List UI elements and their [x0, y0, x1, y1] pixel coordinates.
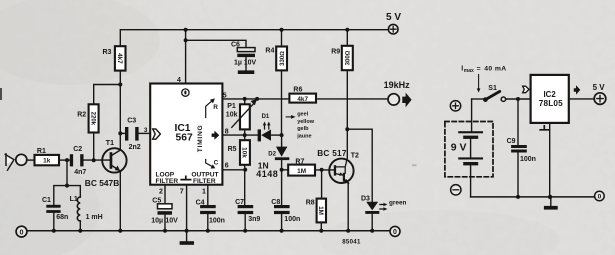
- svg-text:TIMING: TIMING: [197, 125, 204, 153]
- svg-text:C2: C2: [73, 146, 82, 153]
- pin 8 output arrow: [212, 131, 220, 140]
- capacitor C5: [151, 197, 178, 230]
- svg-text:=: =: [477, 66, 481, 73]
- svg-text:jaune: jaune: [296, 134, 311, 140]
- svg-text:4k7: 4k7: [297, 96, 308, 103]
- svg-text:R4: R4: [265, 47, 274, 54]
- wire R5 to C7: [244, 165, 246, 205]
- svg-text:R6: R6: [293, 86, 302, 93]
- node D1 / R4 / D2: [280, 133, 284, 137]
- node tank branch: [65, 158, 69, 162]
- svg-text:R9: R9: [331, 48, 340, 55]
- svg-text:R2: R2: [77, 111, 86, 118]
- op-amp U1 IC1 567 box: [150, 84, 222, 185]
- node rail C8: [280, 229, 284, 233]
- svg-text:68n: 68n: [56, 214, 68, 221]
- svg-text:D3: D3: [361, 195, 370, 202]
- svg-text:3: 3: [144, 127, 148, 134]
- svg-text:40 mA: 40 mA: [484, 66, 506, 73]
- node rail IC2 ground: [548, 195, 552, 199]
- svg-text:10V: 10V: [165, 218, 178, 225]
- node R7 / R8: [320, 168, 324, 172]
- node rail T1 emitter: [118, 229, 122, 233]
- arrow IC2 input: [523, 86, 529, 93]
- svg-text:R1: R1: [37, 148, 46, 155]
- svg-text:R: R: [213, 104, 218, 111]
- svg-text:L1: L1: [70, 196, 78, 203]
- transistor T2 BC517: [317, 149, 359, 184]
- wire D3 branch: [347, 129, 372, 202]
- node top rail / R4: [280, 28, 284, 32]
- svg-text:78L05: 78L05: [539, 99, 563, 108]
- resistor R9: [331, 46, 353, 70]
- svg-text:C6: C6: [231, 42, 240, 49]
- svg-text:1k: 1k: [43, 158, 51, 165]
- svg-text:FILTER: FILTER: [193, 178, 216, 185]
- ground pin7 bar: [180, 241, 194, 245]
- brace timing C: [206, 160, 219, 169]
- wire C3 left: [120, 132, 125, 134]
- terminal battery plus: [450, 101, 460, 111]
- switch S1: [472, 85, 531, 102]
- svg-text:IC2: IC2: [544, 90, 557, 99]
- svg-text:2: 2: [159, 189, 163, 196]
- svg-text:0: 0: [598, 194, 602, 201]
- svg-text:1µ: 1µ: [234, 60, 242, 67]
- transistor T1 BC547B: [85, 140, 127, 188]
- pin 1 wire: [202, 185, 208, 205]
- wire pin4 drop: [185, 30, 187, 84]
- svg-text:T1: T1: [106, 140, 114, 147]
- wire R3 to T1 collector: [119, 71, 121, 150]
- inductor L1: [70, 186, 103, 231]
- svg-text:C3: C3: [127, 118, 136, 125]
- terminal 0 right: [390, 226, 400, 236]
- node top rail / pin4 line: [184, 28, 188, 32]
- svg-text:C7: C7: [235, 199, 244, 206]
- svg-text:4n7: 4n7: [74, 169, 86, 176]
- svg-text:gelb: gelb: [297, 126, 309, 132]
- capacitor C9: [507, 99, 536, 197]
- label Imax = 40 mA: [461, 66, 506, 93]
- node rail R8: [319, 229, 323, 233]
- wire pin6: [222, 162, 245, 170]
- node R2 branch: [118, 83, 122, 87]
- wire tank drop: [54, 160, 81, 205]
- label LOOP FILTER: [156, 171, 179, 185]
- wire supply rail: [471, 196, 595, 198]
- svg-text:C8: C8: [271, 199, 280, 206]
- wire pin5 net: [222, 92, 388, 99]
- battery 9V: [445, 99, 493, 197]
- svg-text:19kHz: 19kHz: [384, 80, 411, 90]
- svg-text:7: 7: [180, 189, 184, 196]
- svg-text:100n: 100n: [209, 218, 225, 225]
- capacitor C3: [125, 118, 141, 151]
- svg-text:2n2: 2n2: [129, 144, 141, 151]
- resistor R5: [228, 129, 250, 164]
- svg-text:BC 547B: BC 547B: [85, 178, 119, 188]
- capacitor C6: [231, 42, 256, 71]
- wire T1 emitter: [119, 171, 121, 231]
- svg-text:4148: 4148: [256, 169, 278, 179]
- svg-text:R7: R7: [295, 159, 304, 166]
- svg-text:C5: C5: [152, 197, 161, 204]
- svg-text:8: 8: [225, 129, 229, 136]
- node rail C5: [163, 229, 167, 233]
- svg-text:100n: 100n: [520, 156, 536, 163]
- resistor R3: [103, 46, 126, 70]
- svg-text:4k7: 4k7: [116, 53, 123, 64]
- node collector / D3 branch: [345, 127, 349, 131]
- svg-text:330Ω: 330Ω: [279, 51, 286, 66]
- capacitor C2: [70, 146, 87, 176]
- node rail C1: [52, 229, 56, 233]
- pin 4 symbol: [177, 77, 189, 96]
- svg-text:10k: 10k: [241, 147, 248, 158]
- internal ground symbol: [181, 176, 190, 179]
- node pin6: [243, 168, 247, 172]
- svg-text:10V: 10V: [244, 60, 257, 67]
- resistor R6: [289, 86, 316, 103]
- diode D2 1N4148: [256, 135, 289, 205]
- node pin4 / C6 branch: [184, 38, 188, 42]
- wire C2 to T1 base: [84, 159, 110, 161]
- node R2 / base: [92, 158, 96, 162]
- resistor R1: [35, 148, 60, 165]
- svg-text:4: 4: [177, 77, 181, 84]
- svg-text:1M: 1M: [317, 206, 324, 215]
- node pin5 P1 top: [243, 97, 247, 101]
- wire C6 branch: [186, 40, 246, 47]
- svg-text:BC 517: BC 517: [317, 149, 347, 158]
- pin 7 wire: [180, 185, 187, 242]
- svg-text:D2: D2: [268, 152, 276, 158]
- terminal 5V supply: [593, 83, 606, 104]
- brace timing R: [206, 98, 219, 117]
- svg-text:300Ω: 300Ω: [345, 50, 352, 65]
- svg-text:P1: P1: [227, 103, 236, 110]
- svg-text:R8: R8: [306, 200, 315, 207]
- node C3 branch: [118, 131, 122, 135]
- wire R2 bottom: [93, 133, 95, 161]
- svg-text:85041: 85041: [342, 238, 361, 245]
- svg-text:D1: D1: [262, 114, 270, 120]
- LED D1 yellow: [258, 114, 282, 141]
- svg-text:C: C: [214, 160, 219, 167]
- node rail T2 emitter: [346, 229, 350, 233]
- svg-text:max: max: [464, 68, 474, 74]
- label OUTPUT FILTER: [191, 171, 218, 185]
- svg-text:C4: C4: [196, 200, 205, 207]
- resistor R2: [77, 104, 98, 132]
- svg-text:geel: geel: [297, 112, 308, 118]
- wire C3 to IC1 pin3: [139, 127, 151, 134]
- wire bottom rail: [27, 230, 390, 232]
- resistor R8: [306, 170, 326, 231]
- terminal battery minus: [451, 185, 461, 195]
- label TIMING: [197, 125, 204, 153]
- node rail C7: [243, 229, 247, 233]
- svg-text:S1: S1: [488, 85, 497, 92]
- terminal input: [5, 154, 27, 170]
- svg-text:1M: 1M: [297, 168, 306, 175]
- svg-text:5 V: 5 V: [386, 12, 401, 23]
- capacitor C7: [235, 199, 260, 231]
- node rail C9: [516, 195, 520, 199]
- LED D3 green: [361, 195, 406, 231]
- node rail C4: [206, 229, 210, 233]
- IC2 78L05: [531, 75, 569, 123]
- node pin8 P1/R5: [243, 133, 247, 137]
- wire input to R1: [27, 159, 35, 161]
- svg-text:10µ: 10µ: [151, 218, 163, 225]
- svg-text:567: 567: [176, 133, 193, 144]
- svg-text:green: green: [389, 200, 406, 207]
- ground supply: [544, 197, 558, 210]
- svg-text:0: 0: [393, 229, 397, 236]
- wire R2 top: [94, 85, 121, 105]
- svg-text:R3: R3: [103, 49, 112, 56]
- ground C6: [238, 70, 255, 74]
- svg-text:C1: C1: [42, 197, 51, 204]
- node rail pin7: [185, 229, 189, 233]
- svg-text:FILTER: FILTER: [156, 178, 179, 185]
- svg-text:C9: C9: [507, 138, 516, 145]
- node tank split: [65, 184, 69, 188]
- svg-text:5 V: 5 V: [593, 83, 606, 92]
- node D2 / R7: [280, 168, 284, 172]
- capacitor C1: [42, 197, 68, 231]
- capacitor C4: [196, 200, 225, 231]
- terminal 0 left: [16, 226, 27, 237]
- svg-text:1: 1: [202, 189, 206, 196]
- wire IC2 output: [569, 98, 594, 100]
- svg-text:R5: R5: [228, 146, 237, 153]
- pin 2 wire: [159, 185, 165, 204]
- svg-text:T2: T2: [351, 152, 359, 159]
- node pin5 P1 wiper: [255, 97, 259, 101]
- svg-text:5: 5: [223, 92, 227, 99]
- node rail D3: [370, 229, 374, 233]
- svg-text:yellow: yellow: [297, 119, 315, 125]
- wire T2 emitter: [347, 183, 349, 231]
- node top rail / R9: [345, 28, 349, 32]
- wire IC2 ground: [549, 123, 551, 197]
- terminal 0 supply: [595, 191, 605, 201]
- svg-text:3n9: 3n9: [248, 216, 260, 223]
- terminal 5V main: [386, 12, 401, 34]
- svg-text:0: 0: [20, 227, 24, 236]
- wire T2 collector: [346, 30, 348, 159]
- label 85041: [342, 238, 361, 245]
- wire top supply rail: [120, 30, 388, 47]
- resistor R7: [282, 159, 334, 176]
- svg-text:100n: 100n: [284, 216, 300, 223]
- pin 3 input arrow: [153, 129, 161, 139]
- svg-text:9 V: 9 V: [451, 142, 467, 154]
- svg-text:1 mH: 1 mH: [86, 214, 103, 221]
- potentiometer P1: [226, 99, 257, 130]
- resistor R4: [265, 30, 287, 135]
- node rail L1: [78, 229, 82, 233]
- svg-text:220k: 220k: [89, 112, 96, 126]
- svg-text:10k: 10k: [226, 111, 238, 118]
- label D1 colours: [286, 112, 315, 140]
- terminal 19kHz: [384, 80, 412, 107]
- arrow IC2 output: [574, 85, 581, 94]
- wire pin8 net: [222, 129, 257, 136]
- wire R1 to C2: [59, 159, 70, 161]
- node C9 branch: [516, 97, 520, 101]
- IC2 tab ground mark: [540, 126, 548, 130]
- capacitor C8: [271, 199, 300, 231]
- svg-text:6: 6: [225, 162, 229, 169]
